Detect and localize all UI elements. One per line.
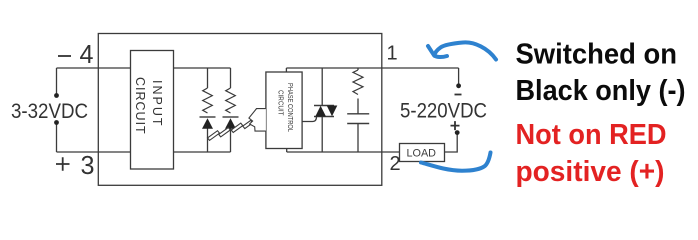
wire: triac bottom lead xyxy=(321,117,323,153)
svg-text:Not on RED: Not on RED xyxy=(516,119,667,151)
svg-text:positive (+): positive (+) xyxy=(516,156,665,188)
svg-text:5-220VDC: 5-220VDC xyxy=(400,100,487,123)
label: output plus sign xyxy=(451,121,460,130)
wire: resistor R2 top stub xyxy=(230,68,232,88)
node: source plus (3-32VDC bottom) xyxy=(54,120,59,125)
wire: LED D1 bottom lead xyxy=(207,129,209,153)
input circuit block U1 xyxy=(131,51,174,170)
svg-text:PHASE CONTROL: PHASE CONTROL xyxy=(286,83,293,132)
resistor R2 xyxy=(226,88,236,113)
annotation: blue arrow top xyxy=(428,42,496,59)
wire: load to plus terminal xyxy=(445,133,458,152)
triac T1 right triangle xyxy=(327,106,338,117)
wire: left source rail lower xyxy=(56,123,58,152)
svg-text:Switched on: Switched on xyxy=(516,39,678,71)
label: terminal 3 plus sign xyxy=(56,157,70,171)
svg-text:3-32VDC: 3-32VDC xyxy=(11,100,88,123)
triac T1 bottom bar xyxy=(314,116,334,118)
label: output minus sign xyxy=(455,94,462,96)
wire: phase control box bottom stub xyxy=(286,149,288,153)
wire: inner bottom rail left section xyxy=(174,151,231,153)
svg-text:LOAD: LOAD xyxy=(407,147,437,159)
triac T1 left triangle xyxy=(315,106,326,117)
wire: left source rail upper xyxy=(56,68,58,95)
LED D1 arrow xyxy=(202,118,213,129)
svg-text:1: 1 xyxy=(387,43,398,65)
svg-text:CIRCUIT: CIRCUIT xyxy=(133,77,147,135)
annotation: blue arrow bottom xyxy=(421,153,491,171)
snubber resistor R3 xyxy=(353,70,363,95)
node: output plus (5-220VDC bottom) xyxy=(455,130,460,135)
LED D2 cathode bar xyxy=(223,116,239,118)
LED D1 cathode bar xyxy=(200,116,216,118)
triac T1 top bar xyxy=(314,105,334,107)
node: output minus (5-220VDC top) xyxy=(456,83,461,88)
light arrows from LEDs to phase control xyxy=(208,120,253,140)
resistor R1 xyxy=(203,88,213,113)
snubber capacitor C1 plate bottom xyxy=(347,123,369,125)
wire: input top rail (terminal 4 to input circuit) xyxy=(57,67,132,69)
wire: triac gate from phase control xyxy=(302,117,317,122)
wire: LED D2 bottom lead xyxy=(230,129,232,153)
wire: inner bottom rail right section xyxy=(287,151,400,153)
wire: inner top rail right section xyxy=(286,67,458,69)
svg-text:Black only (-): Black only (-) xyxy=(516,75,686,107)
snubber capacitor C1 plate top xyxy=(347,113,369,115)
svg-text:CIRCUIT: CIRCUIT xyxy=(277,90,284,116)
wire: input bottom rail (terminal 3 to input circuit) xyxy=(57,151,132,153)
load box xyxy=(400,144,445,162)
wire: inner top rail left section xyxy=(174,67,231,69)
svg-text:INPUT: INPUT xyxy=(150,80,164,128)
photo receiver notch xyxy=(249,109,266,132)
wire: snubber capacitor bottom lead xyxy=(357,124,359,153)
node: source minus (3-32VDC top) xyxy=(54,93,59,98)
wire: output top lead to minus terminal xyxy=(458,68,460,84)
svg-text:4: 4 xyxy=(80,39,94,69)
wire: resistor R1 top stub xyxy=(207,68,209,88)
wire: phase control box top stub xyxy=(285,68,287,72)
phase control circuit block U2 xyxy=(249,72,302,149)
svg-text:2: 2 xyxy=(390,153,401,175)
svg-text:3: 3 xyxy=(81,150,95,180)
label: terminal 4 minus sign xyxy=(58,55,71,57)
LED D2 arrow xyxy=(225,118,236,129)
wire: snubber top stub xyxy=(357,68,359,70)
wire: snubber resistor to capacitor xyxy=(357,99,359,114)
wire: triac top lead xyxy=(321,68,323,106)
relay outer box xyxy=(98,34,382,186)
